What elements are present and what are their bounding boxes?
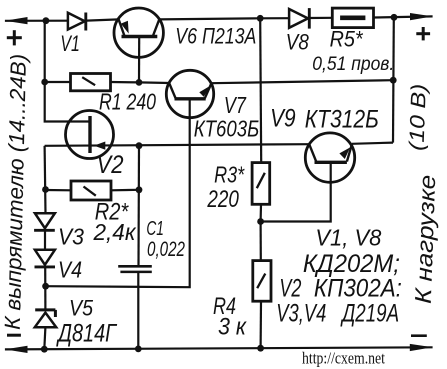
svg-text:V4: V4 <box>58 256 82 282</box>
svg-text:V2: V2 <box>97 151 124 179</box>
node R2 right junction <box>136 186 143 193</box>
svg-text:http://cxem.net: http://cxem.net <box>302 349 385 368</box>
node emitter line junction <box>390 77 397 84</box>
svg-text:КТ312Б: КТ312Б <box>305 105 379 133</box>
wire V2 gate line to V9 <box>45 144 310 146</box>
diode V4 <box>35 250 56 267</box>
svg-text:V9: V9 <box>270 104 296 132</box>
svg-text:К выпрямителю (14...24В): К выпрямителю (14...24В) <box>0 54 31 330</box>
zener V5 <box>35 310 56 327</box>
wire V1 to V6 <box>87 19 119 20</box>
wire node A to V8 <box>260 17 289 19</box>
node output plus arrow <box>410 13 433 20</box>
wire V4 to V5 <box>44 267 46 310</box>
wire right vertical x260 <box>260 18 261 162</box>
wire C1 bottom lead <box>137 273 139 349</box>
resistor R4 <box>253 261 271 302</box>
wire R2 right lead <box>111 189 139 192</box>
svg-text:3 к: 3 к <box>218 314 247 341</box>
svg-text:Д814Г: Д814Г <box>56 319 118 347</box>
label output plus sign <box>416 27 430 40</box>
node gate line junction <box>136 142 143 149</box>
node reference junction <box>42 283 49 290</box>
svg-text:V2: V2 <box>279 275 301 303</box>
label output minus sign <box>411 334 427 337</box>
svg-text:V5: V5 <box>69 295 94 320</box>
node C1 rail junction <box>135 346 142 353</box>
wire R1 right lead <box>111 81 140 84</box>
svg-text:V3,V4: V3,V4 <box>276 299 326 327</box>
capacitor C1 <box>118 266 152 272</box>
transistor V6 <box>114 8 163 57</box>
svg-text:0,022: 0,022 <box>147 238 185 261</box>
svg-text:R1 240: R1 240 <box>99 88 156 114</box>
wire V7 emitter to output node <box>211 80 393 83</box>
svg-text:2,4к: 2,4к <box>93 219 137 245</box>
svg-text:Д219А: Д219А <box>340 299 399 327</box>
node bottom left arrow <box>5 346 28 353</box>
wire R5 to output plus <box>374 16 433 17</box>
wire R4 bottom lead <box>260 301 263 348</box>
transistor V2 <box>66 111 114 159</box>
node A junction <box>257 15 264 22</box>
wire left vertical upper <box>45 21 90 122</box>
node output junction <box>391 14 398 21</box>
wire R1 left lead <box>45 81 71 83</box>
transistor V7 <box>166 70 213 117</box>
wire V6 base lead <box>138 37 140 83</box>
wire output vertical x393 <box>392 17 395 142</box>
node bottom right arrow <box>410 344 433 351</box>
resistor R1 <box>71 74 111 91</box>
diode V3 <box>34 213 55 230</box>
wire gate node down to C1 <box>137 146 140 266</box>
svg-text:V3: V3 <box>58 224 84 250</box>
resistor R3 <box>252 163 270 205</box>
svg-text:(10 В): (10 В) <box>406 83 431 151</box>
wire R3 bottom lead <box>260 204 263 221</box>
node input plus arrow <box>5 17 28 24</box>
svg-text:220: 220 <box>207 186 240 213</box>
node R4 rail junction <box>257 345 264 352</box>
wire V5 to bottom rail <box>44 327 45 349</box>
wire R2 left lead <box>46 189 72 192</box>
svg-text:КТ603Б: КТ603Б <box>194 115 260 141</box>
svg-text:КД202М;: КД202М; <box>303 250 400 278</box>
svg-text:C1: C1 <box>146 218 164 240</box>
wire V8 to R5 <box>309 17 332 19</box>
wire R4 top lead <box>260 222 262 261</box>
label input minus sign <box>7 334 21 337</box>
wire V6 collector to node A <box>159 18 260 19</box>
wire V9 emitter to output vertical <box>352 143 393 144</box>
svg-text:R5*: R5* <box>330 26 364 51</box>
svg-text:V1, V8: V1, V8 <box>315 225 381 251</box>
wire V3 to V4 <box>44 230 46 250</box>
svg-text:V6 П213А: V6 П213А <box>175 24 256 49</box>
svg-text:V8: V8 <box>286 30 310 55</box>
diode V8 <box>289 8 309 29</box>
svg-text:0,51 пров.: 0,51 пров. <box>312 54 394 75</box>
svg-text:КП302А:: КП302А: <box>314 275 402 303</box>
resistor R5 <box>332 8 373 28</box>
node V6 base junction <box>136 79 143 86</box>
svg-text:К нагрузке: К нагрузке <box>410 174 440 304</box>
wire V7 base lead down <box>46 99 190 287</box>
node V5 rail junction <box>41 346 48 353</box>
resistor R2 <box>71 181 111 200</box>
node left input junction <box>43 17 50 24</box>
svg-text:V1: V1 <box>60 31 80 56</box>
wire bottom rail <box>5 347 433 349</box>
wire top rail input segment <box>5 20 68 22</box>
transistor V9 <box>305 133 354 182</box>
label input plus sign <box>7 30 22 45</box>
diode V1 <box>68 13 86 31</box>
wire V9 base connection <box>261 162 331 221</box>
node R1 left junction <box>41 79 48 86</box>
wire junction to V7 base input <box>139 81 169 84</box>
node R3 R4 junction <box>257 218 264 225</box>
node R2 left junction <box>42 186 49 193</box>
svg-text:R3*: R3* <box>214 162 245 188</box>
wire left vertical lower <box>43 146 46 213</box>
svg-text:V7: V7 <box>224 92 247 118</box>
